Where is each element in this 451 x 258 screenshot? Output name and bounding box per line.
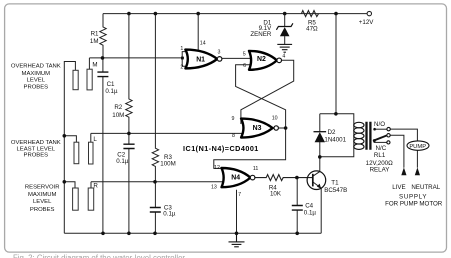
svg-text:N4: N4: [231, 174, 240, 181]
svg-text:1M: 1M: [90, 38, 99, 45]
svg-text:9: 9: [232, 116, 235, 122]
svg-text:13: 13: [211, 184, 217, 190]
svg-text:0.1µ: 0.1µ: [116, 158, 129, 165]
svg-text:0.1µ: 0.1µ: [304, 210, 317, 217]
svg-text:N3: N3: [253, 125, 262, 132]
svg-text:PROBES: PROBES: [24, 85, 49, 91]
svg-text:RELAY: RELAY: [370, 167, 390, 174]
svg-text:BC547B: BC547B: [324, 187, 347, 194]
svg-text:3: 3: [218, 49, 221, 55]
svg-text:RESERVOIR: RESERVOIR: [25, 184, 60, 190]
svg-text:0.1µ: 0.1µ: [105, 88, 118, 95]
svg-text:MAXIMUM: MAXIMUM: [28, 192, 57, 198]
svg-text:MAXIMUM: MAXIMUM: [22, 71, 51, 77]
svg-text:+12V: +12V: [359, 19, 374, 26]
svg-text:N/C: N/C: [376, 145, 387, 152]
svg-text:100M: 100M: [160, 160, 175, 167]
svg-text:LIVE: LIVE: [392, 184, 405, 191]
svg-text:R: R: [93, 183, 98, 190]
svg-text:N/O: N/O: [374, 121, 385, 128]
svg-text:7: 7: [238, 192, 241, 198]
svg-text:14: 14: [200, 40, 206, 46]
svg-text:R1: R1: [91, 30, 99, 37]
svg-text:NEUTRAL: NEUTRAL: [411, 184, 440, 191]
svg-text:N1: N1: [196, 56, 205, 63]
svg-text:5: 5: [243, 51, 246, 57]
svg-text:Fig. 2: Circuit diagram of the: Fig. 2: Circuit diagram of the water-lev…: [13, 253, 185, 258]
svg-text:T1: T1: [331, 180, 339, 187]
svg-text:OVERHEAD TANK: OVERHEAD TANK: [11, 140, 61, 146]
svg-text:N2: N2: [257, 56, 266, 63]
svg-text:LEVEL: LEVEL: [27, 78, 46, 84]
svg-text:2: 2: [180, 64, 183, 70]
svg-text:11: 11: [253, 166, 259, 172]
svg-text:D2: D2: [328, 129, 336, 136]
svg-text:R2: R2: [114, 104, 122, 111]
svg-text:LEVEL: LEVEL: [33, 199, 52, 205]
svg-text:6: 6: [243, 63, 246, 69]
svg-text:L: L: [93, 136, 97, 143]
svg-text:PROBES: PROBES: [30, 207, 55, 213]
svg-text:1: 1: [180, 46, 183, 52]
svg-text:M: M: [92, 61, 97, 68]
svg-text:FOR PUMP MOTOR: FOR PUMP MOTOR: [385, 200, 443, 207]
svg-text:10: 10: [272, 116, 278, 122]
svg-text:OVERHEAD TANK: OVERHEAD TANK: [11, 64, 61, 70]
svg-text:4: 4: [282, 54, 285, 60]
svg-text:47Ω: 47Ω: [306, 26, 318, 33]
svg-text:12: 12: [214, 165, 220, 171]
svg-text:ZENER: ZENER: [250, 31, 272, 38]
svg-text:LEAST LEVEL: LEAST LEVEL: [17, 146, 56, 152]
svg-text:PROBES: PROBES: [24, 153, 49, 159]
svg-text:10M: 10M: [112, 112, 124, 119]
svg-text:8: 8: [232, 133, 235, 139]
svg-text:0.1µ: 0.1µ: [163, 211, 176, 218]
svg-text:10K: 10K: [270, 191, 282, 198]
svg-text:RL1: RL1: [374, 152, 386, 159]
svg-text:1N4001: 1N4001: [324, 137, 346, 144]
svg-text:C1: C1: [107, 81, 115, 88]
svg-text:IC1(N1-N4)=CD4001: IC1(N1-N4)=CD4001: [183, 144, 259, 153]
svg-text:PUMP: PUMP: [409, 144, 426, 150]
